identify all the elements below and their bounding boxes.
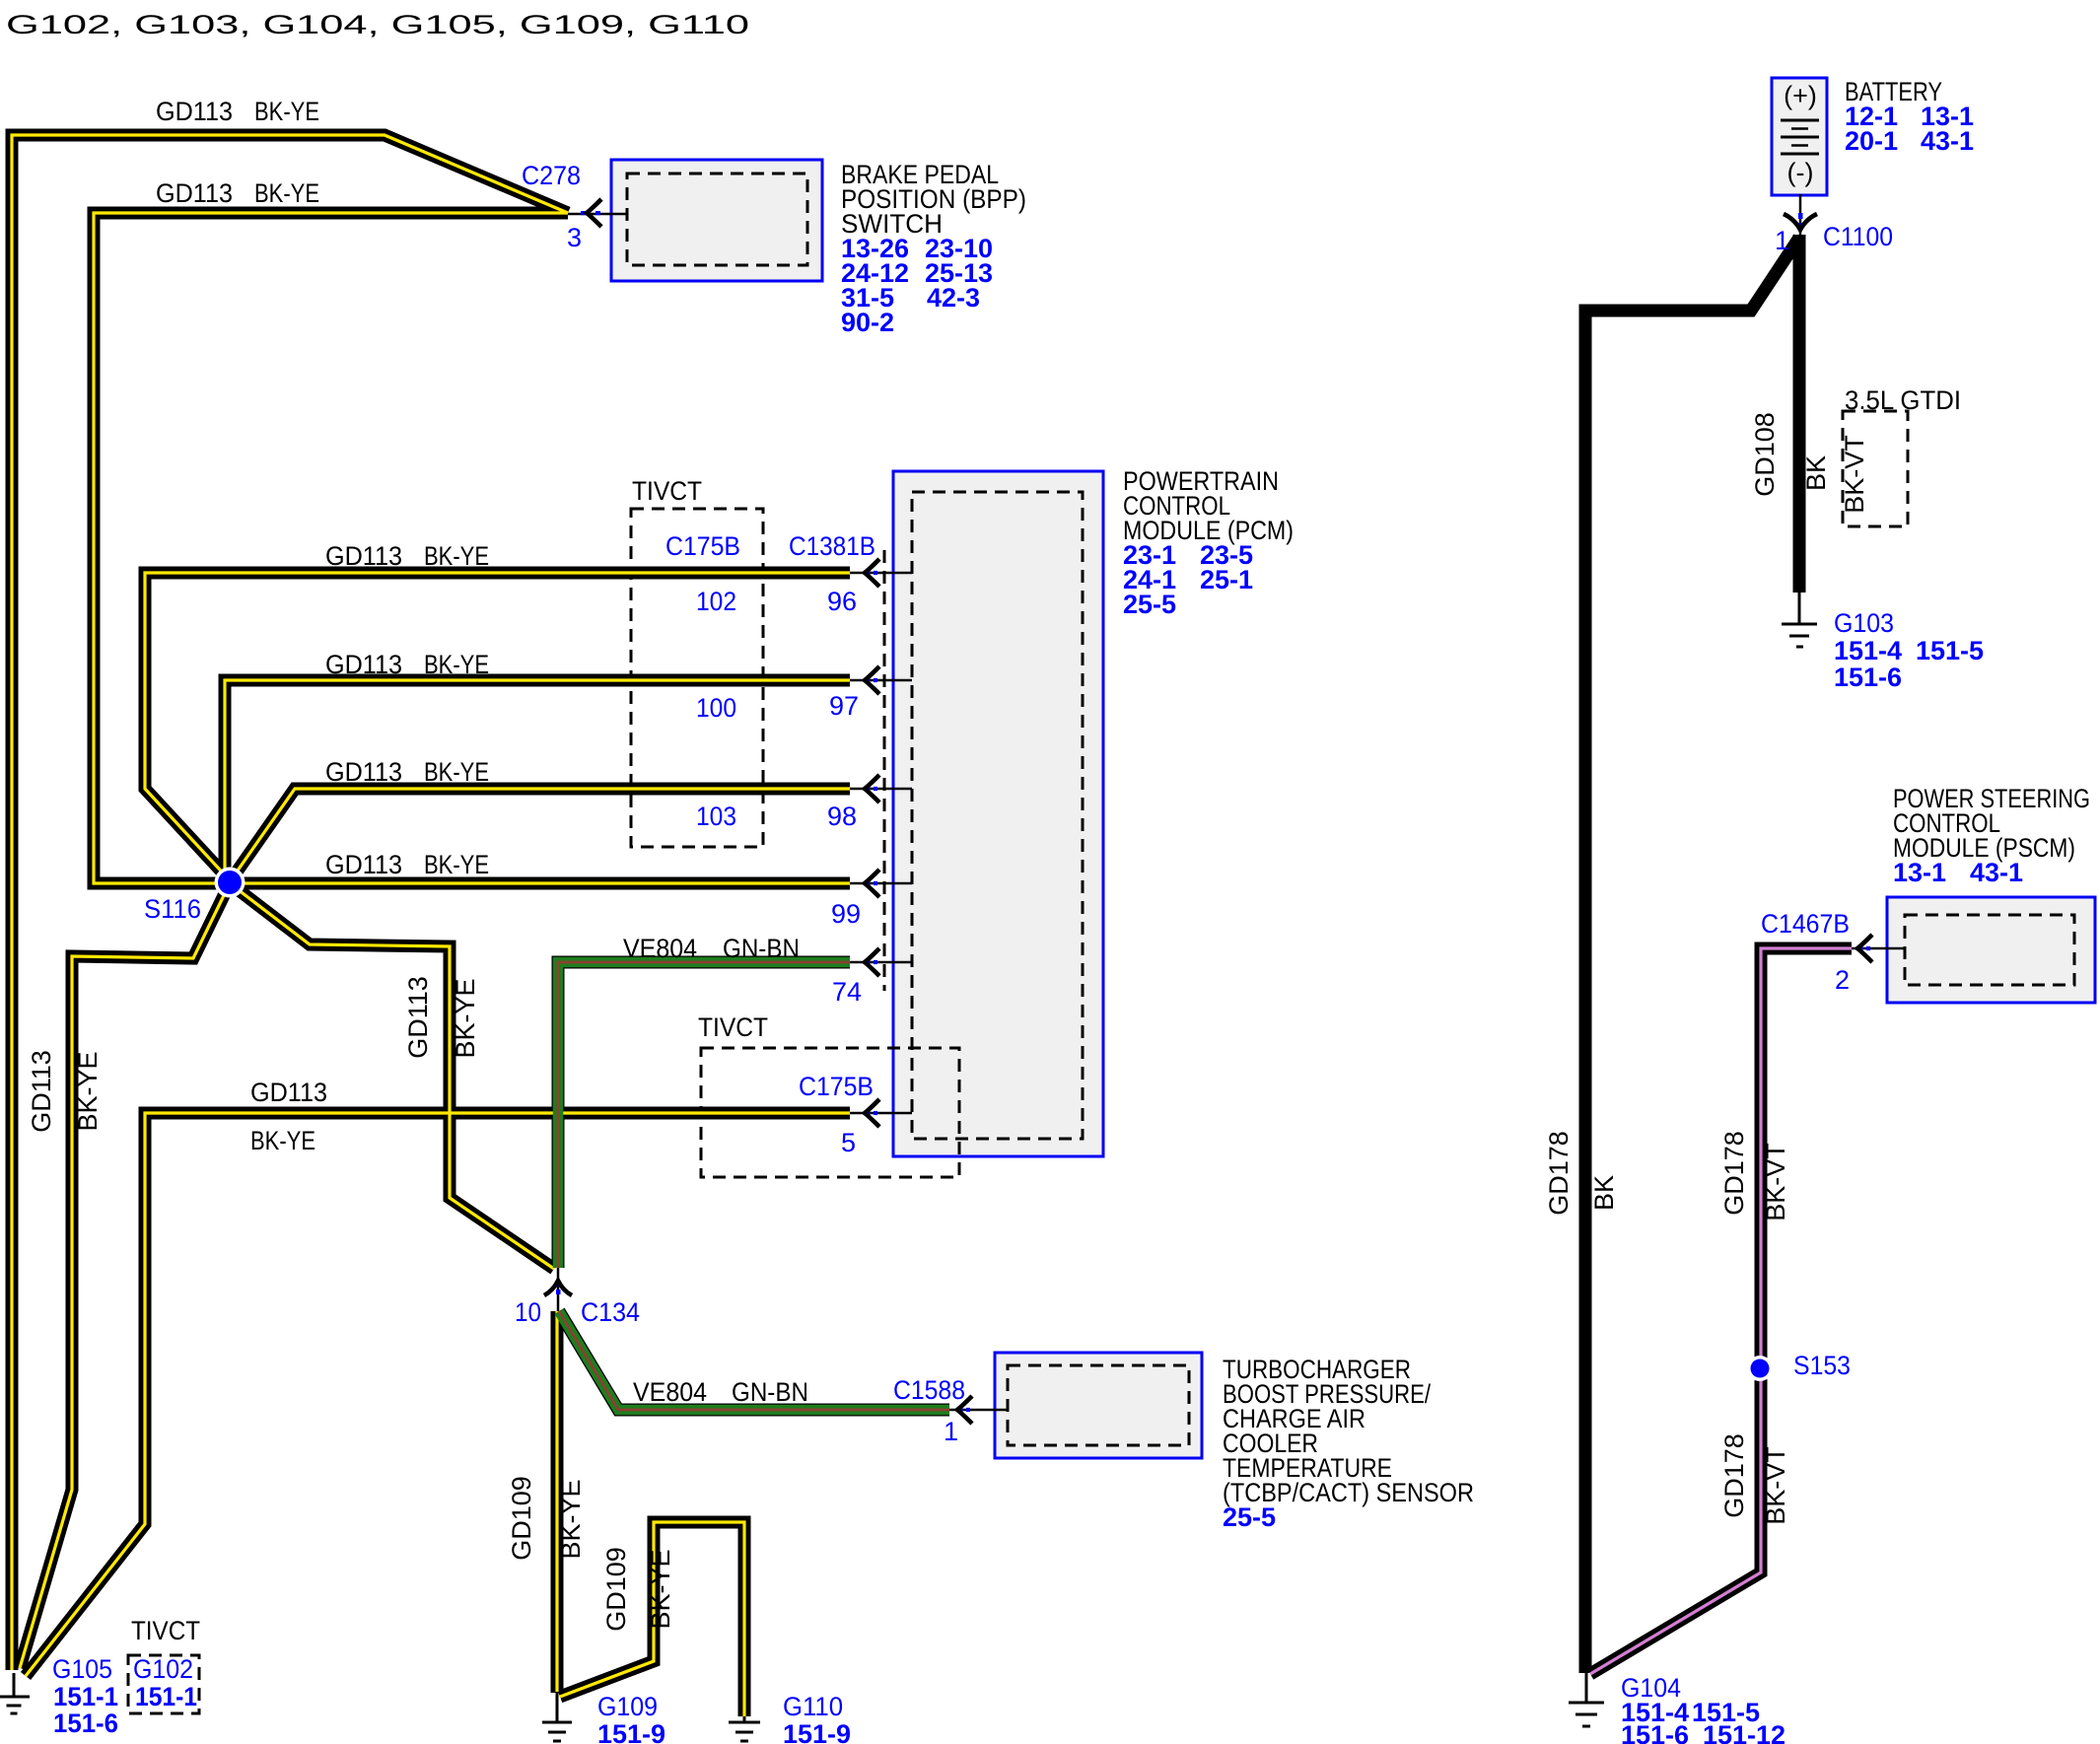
svg-text:151-5: 151-5 <box>1916 636 1984 665</box>
svg-text:GD178: GD178 <box>1719 1131 1749 1216</box>
svg-text:VE804: VE804 <box>623 934 697 963</box>
svg-text:GD109: GD109 <box>507 1476 536 1561</box>
svg-text:BK-YE: BK-YE <box>424 850 489 879</box>
svg-text:1: 1 <box>1775 226 1789 255</box>
svg-text:GD113: GD113 <box>325 541 402 571</box>
svg-text:GD113: GD113 <box>250 1078 327 1107</box>
svg-text:GD113: GD113 <box>27 1050 56 1133</box>
svg-text:GD113: GD113 <box>403 976 433 1059</box>
svg-text:C1381B: C1381B <box>789 531 875 561</box>
svg-text:G102, G103, G104, G105, G109,: G102, G103, G104, G105, G109, G110 <box>6 10 749 39</box>
svg-text:1: 1 <box>944 1417 958 1446</box>
svg-text:151-9: 151-9 <box>783 1719 851 1744</box>
svg-text:S153: S153 <box>1793 1351 1851 1380</box>
svg-text:S116: S116 <box>144 894 201 924</box>
svg-text:25-5: 25-5 <box>1123 590 1176 619</box>
svg-text:GD113: GD113 <box>325 650 402 679</box>
svg-text:GD108: GD108 <box>1750 412 1780 497</box>
svg-text:C175B: C175B <box>799 1072 874 1101</box>
svg-text:C278: C278 <box>522 161 581 190</box>
svg-text:43-1: 43-1 <box>1970 858 2023 887</box>
svg-text:43-1: 43-1 <box>1921 126 1974 156</box>
svg-text:GD113: GD113 <box>325 850 402 879</box>
svg-text:20-1: 20-1 <box>1845 126 1898 156</box>
svg-text:TIVCT: TIVCT <box>698 1012 768 1042</box>
svg-text:151-12: 151-12 <box>1703 1720 1785 1744</box>
svg-text:97: 97 <box>829 691 859 721</box>
svg-text:BK-VT: BK-VT <box>1761 1446 1790 1525</box>
svg-text:TIVCT: TIVCT <box>131 1616 200 1645</box>
svg-text:151-1: 151-1 <box>53 1682 118 1711</box>
svg-text:3.5L GTDI: 3.5L GTDI <box>1845 385 1961 415</box>
svg-text:151-4: 151-4 <box>1834 636 1902 665</box>
svg-text:C1100: C1100 <box>1823 222 1893 251</box>
svg-text:BK-YE: BK-YE <box>451 978 480 1058</box>
svg-text:5: 5 <box>841 1128 856 1157</box>
svg-text:BK-VT: BK-VT <box>1840 435 1869 514</box>
svg-text:VE804: VE804 <box>633 1377 707 1407</box>
svg-text:GD113: GD113 <box>156 178 233 208</box>
svg-text:GN-BN: GN-BN <box>723 934 800 963</box>
svg-text:BK-YE: BK-YE <box>254 97 319 126</box>
svg-text:G102: G102 <box>133 1654 193 1684</box>
svg-text:151-9: 151-9 <box>597 1719 665 1744</box>
svg-text:151-6: 151-6 <box>1621 1720 1689 1744</box>
svg-text:103: 103 <box>696 802 736 831</box>
svg-text:C1467B: C1467B <box>1761 909 1850 939</box>
svg-text:C1588: C1588 <box>893 1375 965 1405</box>
svg-text:BK-YE: BK-YE <box>250 1126 315 1155</box>
svg-text:BK-YE: BK-YE <box>556 1479 586 1559</box>
svg-text:C134: C134 <box>581 1297 640 1327</box>
svg-text:74: 74 <box>832 977 862 1007</box>
svg-text:13-1: 13-1 <box>1893 858 1946 887</box>
svg-text:3: 3 <box>567 223 582 252</box>
svg-text:151-6: 151-6 <box>1834 663 1902 692</box>
svg-text:GD113: GD113 <box>156 97 233 126</box>
svg-text:GN-BN: GN-BN <box>732 1377 808 1407</box>
svg-text:BK-YE: BK-YE <box>646 1549 675 1629</box>
svg-text:GD113: GD113 <box>325 757 402 787</box>
svg-text:TIVCT: TIVCT <box>632 476 702 506</box>
svg-text:90-2: 90-2 <box>841 308 894 337</box>
svg-text:(-): (-) <box>1787 158 1814 187</box>
svg-text:2: 2 <box>1835 965 1850 995</box>
svg-text:GD109: GD109 <box>601 1547 631 1632</box>
svg-text:G110: G110 <box>783 1692 843 1721</box>
svg-text:BK-VT: BK-VT <box>1761 1143 1790 1221</box>
svg-text:G105: G105 <box>52 1654 112 1684</box>
svg-text:BK-YE: BK-YE <box>424 541 489 571</box>
svg-text:25-1: 25-1 <box>1200 565 1253 594</box>
svg-text:25-5: 25-5 <box>1223 1502 1276 1532</box>
svg-text:GD178: GD178 <box>1544 1131 1574 1216</box>
svg-text:BK-YE: BK-YE <box>424 757 489 787</box>
svg-text:BK-YE: BK-YE <box>254 178 319 208</box>
svg-text:42-3: 42-3 <box>927 283 980 313</box>
svg-text:BK-YE: BK-YE <box>424 650 489 679</box>
svg-text:C175B: C175B <box>665 531 740 561</box>
svg-text:BK: BK <box>1589 1175 1619 1211</box>
svg-text:102: 102 <box>696 587 736 616</box>
svg-text:96: 96 <box>827 587 857 616</box>
svg-text:G103: G103 <box>1834 608 1894 638</box>
svg-text:G109: G109 <box>597 1692 658 1721</box>
svg-text:100: 100 <box>696 693 736 723</box>
svg-text:GD178: GD178 <box>1719 1433 1749 1518</box>
svg-text:10: 10 <box>515 1297 541 1327</box>
svg-text:151-6: 151-6 <box>53 1709 118 1738</box>
svg-text:BK-YE: BK-YE <box>73 1051 103 1131</box>
svg-text:99: 99 <box>831 899 861 929</box>
svg-text:BK: BK <box>1801 455 1831 491</box>
svg-text:98: 98 <box>827 802 857 831</box>
svg-text:(+): (+) <box>1784 81 1817 110</box>
svg-text:151-1: 151-1 <box>135 1682 197 1711</box>
